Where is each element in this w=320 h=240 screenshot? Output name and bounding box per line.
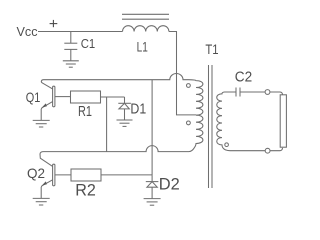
wire cross-coupling junction down to Q2 collector line [106, 97, 108, 152]
primary terminal circle (top) [187, 84, 191, 88]
primary terminal circle (center tap) [187, 121, 191, 125]
ground (under D2) [144, 199, 161, 206]
svg-text:D2: D2 [159, 175, 180, 193]
wire bottom terminal to lamp [270, 148, 283, 151]
wire R1 to D1 [101, 96, 125, 98]
T1 core lines [209, 65, 213, 188]
capacitor C1 [64, 32, 77, 61]
wire Q2 base to R2 [55, 174, 71, 176]
emitter lead with arrow [42, 102, 53, 108]
svg-text:C1: C1 [81, 36, 96, 51]
svg-text:C2: C2 [235, 68, 252, 85]
svg-text:Q1: Q1 [26, 89, 41, 105]
wire top terminal to lamp [270, 92, 283, 95]
transformer T1 secondary winding [217, 92, 265, 151]
wire Vcc rail to L1 [38, 31, 123, 33]
collector lead [41, 80, 52, 89]
svg-text:R1: R1 [78, 104, 92, 120]
transformer T1 primary winding (lower half) [189, 115, 203, 152]
svg-text:Vcc: Vcc [17, 25, 38, 39]
transistor Q1 [41, 80, 55, 121]
capacitor C2 [236, 88, 265, 97]
emitter lead with arrow [42, 180, 53, 186]
wire Q2 collector line to primary bottom (with hop over cross-coupling wire) [44, 146, 190, 152]
secondary terminal circle (bottom) [225, 143, 229, 147]
wire L1 to primary center tap [169, 32, 196, 115]
wire R2 to D2 node [101, 174, 152, 176]
output terminal circle (top) [265, 90, 270, 95]
diode D2 [146, 175, 159, 198]
ground (under C1) [63, 61, 79, 67]
plus sign polarity mark [50, 20, 58, 27]
svg-text:R2: R2 [75, 180, 96, 199]
output terminal circle (bottom) [265, 148, 270, 153]
ground (under Q1 emitter) [33, 120, 50, 127]
resistor R2 [71, 169, 101, 181]
lamp / load [280, 95, 286, 147]
transformer T1 primary winding (upper half) [189, 80, 203, 115]
base bar [53, 86, 55, 107]
diode D1 [118, 97, 131, 120]
svg-text:D1: D1 [130, 101, 146, 117]
ground (under D1) [117, 120, 133, 126]
transistor Q2 [40, 152, 55, 199]
inductor L1 [123, 26, 169, 32]
svg-text:T1: T1 [205, 41, 218, 57]
base bar [53, 164, 55, 186]
resistor R1 [71, 91, 101, 103]
wire cross-coupling from Q1 collector line down to R2/D2 node [151, 80, 153, 176]
L1 core lines [122, 14, 169, 19]
svg-text:L1: L1 [137, 38, 148, 54]
wire Q1 collector line to primary top (with hop over center-tap wire) [44, 74, 189, 80]
wire Q1 base to R1 [55, 96, 71, 98]
ground (under Q2 emitter) [33, 198, 50, 205]
svg-text:Q2: Q2 [27, 165, 45, 181]
collector lead [40, 152, 53, 167]
